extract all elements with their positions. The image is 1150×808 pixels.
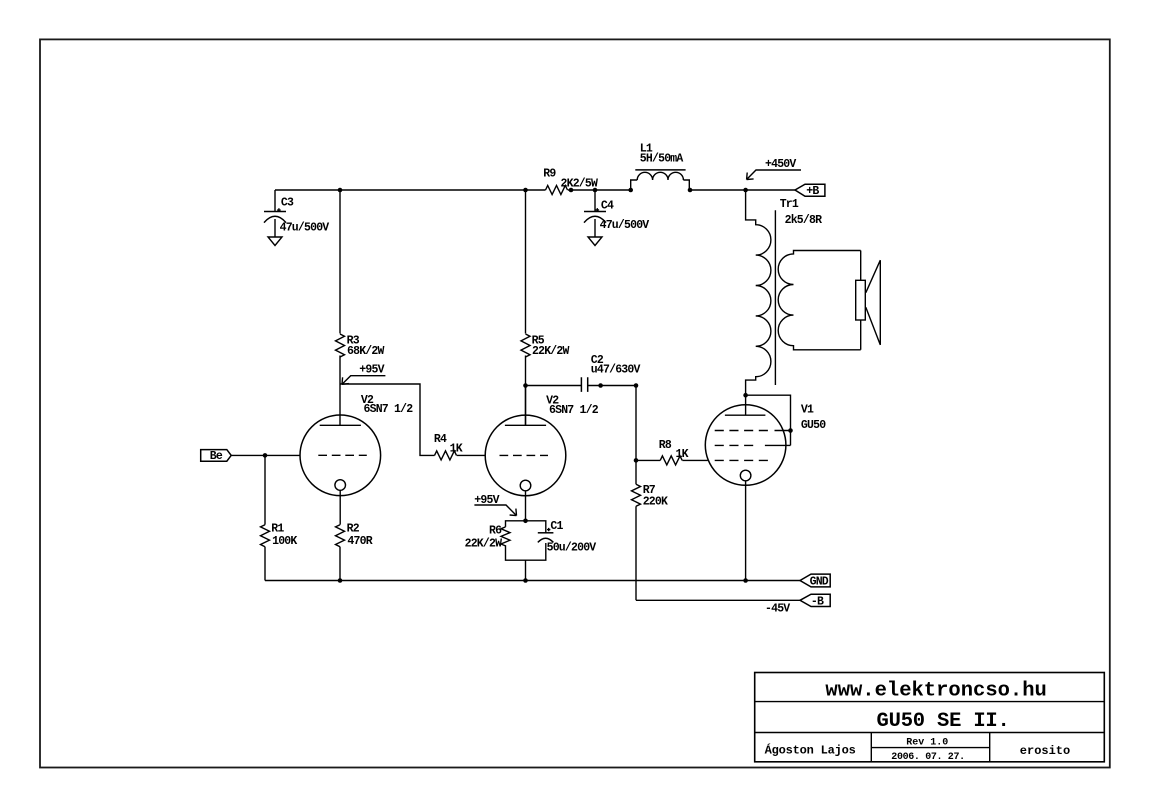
wire R5 to plate V2b <box>525 356 527 426</box>
ground <box>268 237 282 246</box>
svg-text:GU50: GU50 <box>801 419 826 432</box>
wire R7 leads <box>635 460 637 600</box>
node +450V callout <box>747 158 801 180</box>
wire R3 to plate V2a <box>339 356 341 426</box>
svg-text:+B: +B <box>806 185 819 198</box>
wire R1 top lead <box>264 455 266 524</box>
svg-text:22K/2W: 22K/2W <box>465 538 503 551</box>
svg-text:220K: 220K <box>643 495 668 508</box>
svg-text:+95V: +95V <box>359 363 384 376</box>
wire V1 screen strap <box>746 395 791 445</box>
svg-text:www.elektroncso.hu: www.elektroncso.hu <box>825 679 1046 702</box>
wire R4 to grid V2b <box>457 454 486 456</box>
svg-text:2006. 07. 27.: 2006. 07. 27. <box>891 752 964 763</box>
svg-text:1K: 1K <box>450 443 463 456</box>
wire ground bus <box>265 580 800 582</box>
svg-text:2K2/5W: 2K2/5W <box>561 178 599 191</box>
svg-text:50u/200V: 50u/200V <box>547 542 597 555</box>
flag +B <box>795 184 825 198</box>
resistor R5 <box>521 334 530 357</box>
svg-text:68K/2W: 68K/2W <box>347 345 385 358</box>
svg-text:GND: GND <box>810 575 829 588</box>
wire R6 C1 loop <box>506 521 546 560</box>
wire R1 bottom lead <box>264 547 266 581</box>
svg-text:100K: 100K <box>272 535 297 548</box>
wire top supply bus <box>275 189 795 191</box>
svg-text:Be: Be <box>210 450 223 463</box>
flag -B <box>800 594 830 608</box>
triode V2b <box>485 415 566 496</box>
wire cathode V2b <box>525 491 527 521</box>
svg-text:6SN7 1/2: 6SN7 1/2 <box>549 404 599 417</box>
transformer Tr1 primary <box>746 190 771 395</box>
transformer Tr1 core <box>774 210 776 385</box>
node +95V callout middle <box>474 494 516 515</box>
capacitor C3 <box>264 190 286 237</box>
wire cathode V2a to R2 <box>339 490 341 524</box>
node +95V callout left <box>342 363 385 384</box>
svg-text:+450V: +450V <box>765 158 796 171</box>
svg-text:22K/2W: 22K/2W <box>532 345 570 358</box>
resistor R6 <box>501 527 510 546</box>
inductor L1 <box>631 170 690 190</box>
capacitor C1 <box>538 528 554 543</box>
speaker <box>856 251 881 350</box>
svg-text:C1: C1 <box>550 520 563 533</box>
svg-text:R4: R4 <box>434 433 447 446</box>
wire R8 leads <box>636 459 708 461</box>
svg-text:-B: -B <box>811 595 824 608</box>
resistor R8 <box>660 456 682 465</box>
pentode V1 <box>705 395 790 485</box>
svg-text:GU50 SE II.: GU50 SE II. <box>877 710 1010 733</box>
wire R2 bottom lead <box>339 547 341 581</box>
flag Be <box>201 450 232 463</box>
svg-text:C3: C3 <box>281 197 294 210</box>
title block <box>755 673 1105 763</box>
triode V2a <box>300 415 381 496</box>
svg-text:C4: C4 <box>601 199 614 212</box>
resistor R2 <box>336 525 345 547</box>
resistor R9 <box>546 186 568 195</box>
svg-text:erosito: erosito <box>1020 744 1070 758</box>
wire plate V2b to C2 <box>526 386 582 426</box>
svg-text:2k5/8R: 2k5/8R <box>785 214 823 227</box>
svg-text:6SN7 1/2: 6SN7 1/2 <box>364 403 414 416</box>
transformer Tr1 secondary <box>778 251 861 350</box>
flag GND <box>800 574 830 588</box>
capacitor C2 <box>581 377 587 392</box>
svg-text:47u/500V: 47u/500V <box>600 219 650 232</box>
resistor R4 <box>435 451 457 460</box>
resistor R1 <box>261 525 270 547</box>
resistor R3 <box>336 334 345 357</box>
svg-text:R1: R1 <box>271 522 284 535</box>
svg-text:u47/630V: u47/630V <box>591 363 641 376</box>
junction dots <box>263 188 793 583</box>
svg-text:R9: R9 <box>543 167 556 180</box>
wire plate V2a to R4 <box>340 384 435 455</box>
svg-text:Tr1: Tr1 <box>780 198 799 211</box>
ground <box>588 237 602 246</box>
wire x525 dropper <box>525 190 527 334</box>
svg-text:R6: R6 <box>489 524 502 537</box>
wire cathode V1 to ground bus <box>745 481 747 581</box>
wire Be to grid V2a <box>231 454 300 456</box>
svg-text:Rev 1.0: Rev 1.0 <box>906 738 948 749</box>
svg-text:V1: V1 <box>801 404 814 417</box>
svg-text:+95V: +95V <box>474 494 499 507</box>
svg-text:5H/50mA: 5H/50mA <box>640 152 684 165</box>
wire x340 dropper <box>339 190 341 334</box>
wire R6C1 to ground bus <box>525 560 527 580</box>
svg-text:R8: R8 <box>659 439 672 452</box>
capacitor C4 <box>584 190 606 237</box>
svg-text:470R: 470R <box>347 535 372 548</box>
svg-text:R2: R2 <box>347 522 360 535</box>
wire C2 to R8 <box>588 386 636 461</box>
svg-text:47u/500V: 47u/500V <box>280 222 330 235</box>
wire -B line <box>636 599 800 601</box>
svg-text:-45V: -45V <box>765 603 790 616</box>
resistor R7 <box>632 484 641 506</box>
svg-text:1K: 1K <box>676 448 689 461</box>
svg-text:Ágoston Lajos: Ágoston Lajos <box>765 743 856 758</box>
